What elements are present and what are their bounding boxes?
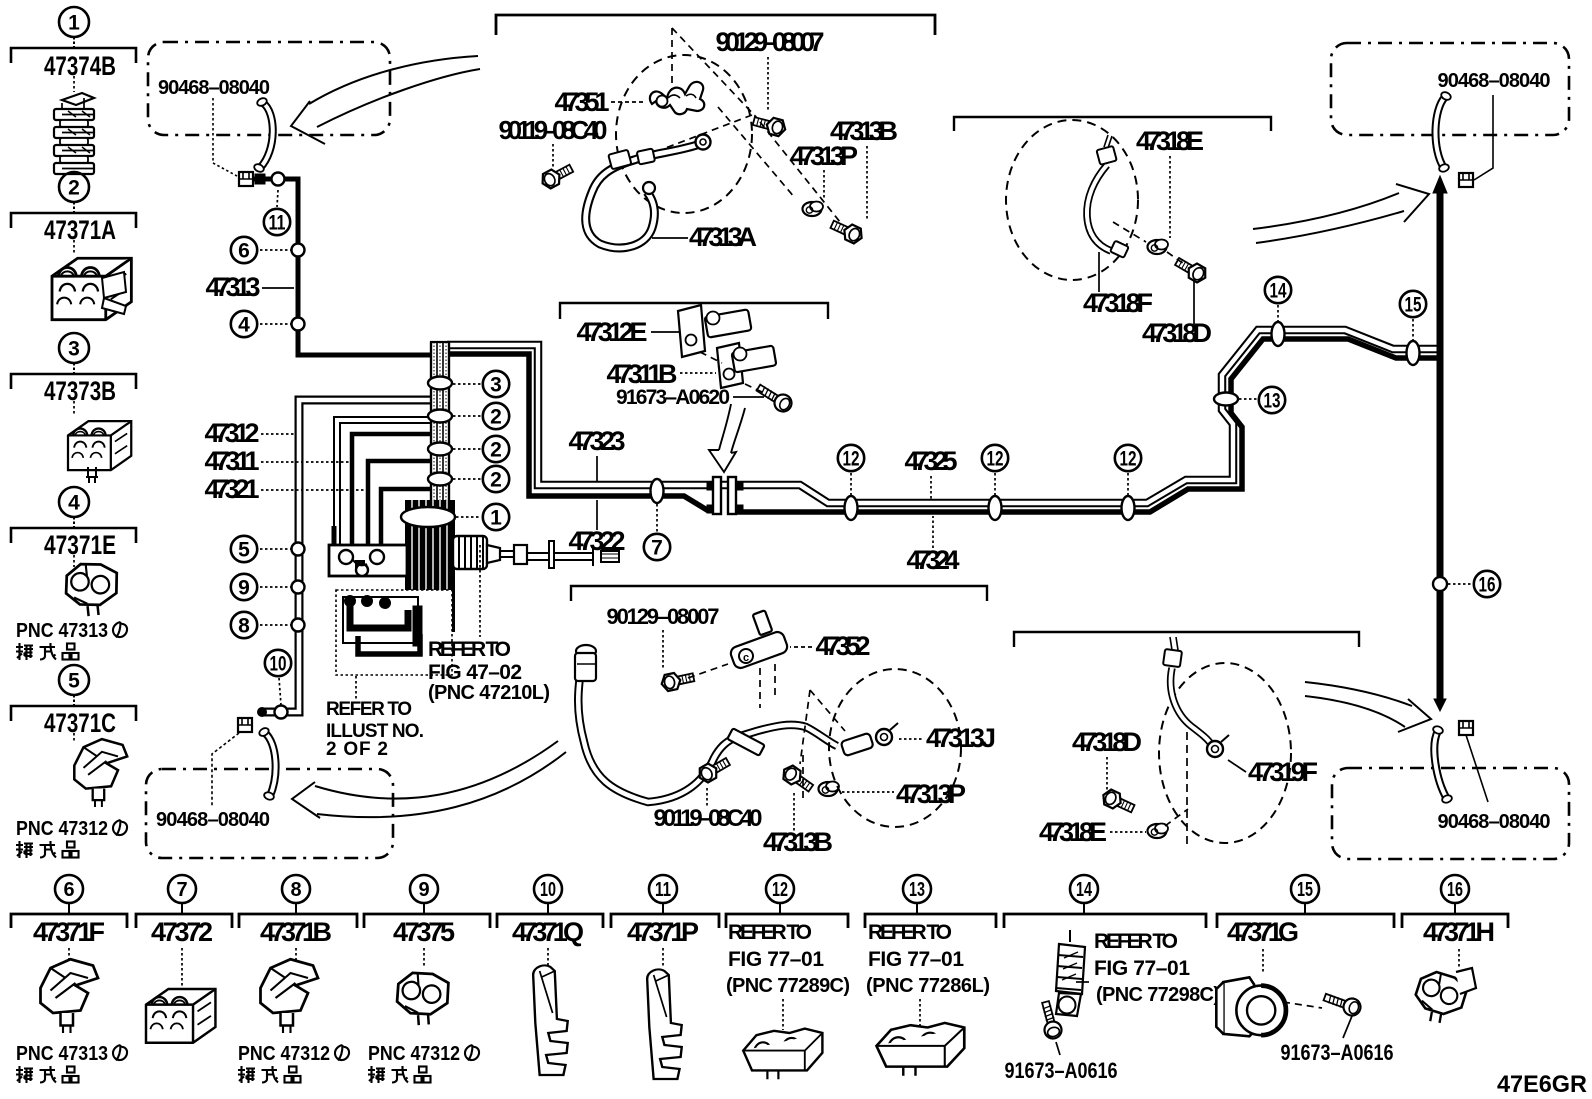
callout circle 15 — [1400, 291, 1426, 317]
refer text item 14 — [1094, 930, 1220, 1006]
svg-text:91673–A0616: 91673–A0616 — [1005, 1058, 1118, 1083]
wire leader callout 2a — [453, 415, 481, 417]
dashed pointer lines bottom-center — [800, 690, 845, 800]
svg-text:90468–08040: 90468–08040 — [156, 809, 270, 831]
dashed callout box bottom-left 90468-08040 — [146, 769, 393, 858]
bracket item 13 — [865, 914, 996, 928]
wire left tube 47312 component run — [257, 400, 433, 717]
dashed callout box bottom-right 90468-08040 — [1332, 768, 1569, 859]
svg-text:4: 4 — [68, 492, 80, 515]
callout circle 11 — [264, 209, 290, 235]
square clip connector top-right — [1459, 173, 1473, 187]
node clamp point 16 — [1433, 577, 1447, 591]
bracket 47311B — [717, 343, 776, 388]
clamp icon 47371B — [261, 959, 319, 1033]
svg-text:90119–08C40: 90119–08C40 — [499, 115, 608, 145]
svg-text:47321: 47321 — [205, 474, 260, 504]
wire brake tube 47313 (front-left run) — [252, 174, 433, 355]
node grommet 2a on bundle — [428, 410, 452, 423]
actuator lower bracket — [336, 590, 452, 675]
clamp icon 47371G grommet — [1216, 977, 1286, 1036]
callout circle 4 — [231, 311, 257, 337]
svg-text:FIG 77–01: FIG 77–01 — [1094, 957, 1190, 980]
bolt 47318D top — [1173, 254, 1209, 284]
tube bundle at actuator — [431, 342, 449, 502]
clamp icon 47371H — [1412, 968, 1476, 1027]
callout circle 14 — [1265, 277, 1291, 303]
node clamp point 9 — [292, 581, 305, 594]
bolt 47313B top — [829, 217, 865, 246]
svg-text:47375: 47375 — [393, 917, 455, 947]
item column 3 : callout 3 — [11, 333, 136, 415]
grommet tube piece top-left — [253, 97, 273, 174]
svg-text:FIG 77–01: FIG 77–01 — [728, 948, 824, 971]
frame bracket top-right sub-diagram — [954, 117, 1271, 131]
callout circle b11 — [649, 875, 677, 903]
svg-text:47313: 47313 — [206, 272, 261, 302]
node grommet 3 on bundle — [428, 377, 452, 390]
dashed pointer lines top-center — [608, 28, 757, 170]
dashed drop bottom-right — [1186, 732, 1188, 845]
svg-text:47318D: 47318D — [1072, 727, 1142, 757]
leader 47313 — [262, 287, 294, 289]
svg-text:47318D: 47318D — [1142, 318, 1212, 348]
leader 91673-A0620 — [733, 396, 764, 398]
leader 47324 — [932, 516, 934, 548]
leader 47318D top — [1193, 280, 1195, 324]
node clamp point 5 — [292, 543, 305, 556]
svg-text:1: 1 — [490, 507, 502, 530]
label PNC 47312 component 9 — [368, 1043, 479, 1083]
frame bracket bottom-center sub-diagram — [571, 586, 987, 601]
bracket item 15 — [1217, 914, 1394, 928]
svg-text:47323: 47323 — [569, 426, 626, 456]
item column 2 : callout 2 — [11, 172, 136, 255]
svg-text:5: 5 — [68, 670, 80, 693]
clamp icon 47374B — [54, 93, 94, 174]
svg-text:9: 9 — [238, 577, 250, 600]
leader 47313J — [899, 738, 924, 740]
clamp icon 47375 — [395, 970, 451, 1026]
svg-text:12: 12 — [772, 879, 788, 901]
leader 47351 — [611, 101, 645, 103]
svg-text:47371F: 47371F — [33, 917, 105, 947]
svg-text:47374B: 47374B — [44, 51, 116, 81]
bracket item 9 — [364, 914, 490, 928]
wire leader callout 11 — [277, 190, 278, 207]
bolt item 14 91673-A0616 — [1037, 1000, 1063, 1041]
clamp icon 47371P — [647, 969, 682, 1079]
node clamp point 6 — [292, 244, 305, 257]
svg-text:FIG 77–01: FIG 77–01 — [868, 948, 964, 971]
svg-text:47319F: 47319F — [1248, 757, 1318, 787]
clamp icon item 12 — [743, 1029, 822, 1080]
svg-text:47371C: 47371C — [44, 708, 116, 738]
svg-text:47371Q: 47371Q — [512, 917, 584, 947]
wire leader callout 12c — [1127, 473, 1129, 496]
svg-text:47371E: 47371E — [44, 530, 116, 560]
dashed inspection ellipse top-right — [1006, 120, 1138, 280]
arrow swoosh top-left — [291, 56, 480, 144]
label PNC 47312 component 8 — [238, 1043, 349, 1083]
svg-text:(PNC 47210L): (PNC 47210L) — [428, 682, 550, 704]
clamp icon 47371A — [52, 258, 131, 319]
leader 47312E — [651, 331, 680, 333]
bracket 47312E — [678, 305, 752, 357]
dashed link hose-nut-bolt top-right — [1113, 222, 1184, 264]
label refer to illust no 2 of 2 — [326, 699, 424, 760]
svg-text:90468–08040: 90468–08040 — [1438, 70, 1551, 92]
svg-text:47313P: 47313P — [790, 141, 858, 171]
leader 90119 bottom — [706, 788, 708, 808]
leader refer fig47-02 — [479, 545, 481, 637]
callout circle 12c — [1115, 445, 1141, 471]
svg-text:47E6GR: 47E6GR — [1497, 1071, 1587, 1098]
callout circle b8 — [282, 875, 310, 903]
dashed link nut bottom-right — [1165, 809, 1188, 826]
square clip connector bottom-right — [1459, 721, 1473, 735]
leader 47322 — [596, 500, 598, 530]
svg-text:47312: 47312 — [205, 418, 260, 448]
svg-text:47313B: 47313B — [763, 827, 833, 857]
nut 47318E bottom — [1148, 824, 1169, 839]
bolt 91673-A0620 — [754, 380, 795, 414]
callout circle 7 — [644, 534, 670, 560]
callout circle b10 — [534, 875, 562, 903]
node clamp point 15 — [1407, 341, 1420, 365]
svg-text:47371H: 47371H — [1423, 917, 1495, 947]
wire leader callout 1 — [456, 516, 481, 518]
callout circle b13 — [903, 875, 931, 903]
svg-text:REFER TO: REFER TO — [1094, 930, 1178, 953]
clamp icon 47371F — [41, 959, 99, 1033]
square clip connector bottom-left — [238, 718, 252, 732]
svg-text:15: 15 — [1405, 294, 1422, 317]
svg-text:47324: 47324 — [907, 545, 960, 575]
bolt 90129-08007 top — [752, 113, 788, 137]
wire main tube upper 47323 to rear — [447, 330, 1438, 503]
svg-text:47311B: 47311B — [607, 359, 678, 389]
callout circle 12a — [838, 445, 864, 471]
arrow swoosh bottom-right — [1305, 682, 1431, 732]
dashed inspection ellipse bottom-right — [1159, 663, 1291, 843]
refer text item 13 — [866, 921, 990, 997]
svg-text:12: 12 — [843, 448, 860, 471]
label PNC 47313 component 6 — [16, 1043, 127, 1083]
label PNC 47312 component 5 — [16, 818, 127, 858]
callout circle b14 — [1070, 875, 1098, 903]
leader 47313P bottom — [842, 791, 894, 793]
wire leader callout 15 — [1412, 319, 1414, 341]
bolt 47318D bottom — [1100, 788, 1136, 817]
clamp icon 47371E — [63, 560, 121, 618]
leader 47318D bottom — [1106, 757, 1108, 790]
leader 47318E top — [1169, 156, 1171, 238]
leader 47318F — [1098, 252, 1100, 292]
callout circle 5 — [231, 536, 257, 562]
nut 47318E top — [1148, 240, 1169, 255]
svg-text:47318E: 47318E — [1039, 817, 1107, 847]
node clamp point 7 — [651, 479, 664, 503]
dashed leaders to bolts top — [718, 107, 840, 222]
wire leader callout 12a — [850, 473, 852, 496]
arrow swoosh bottom-left — [292, 741, 566, 818]
grommet tube piece bottom-right — [1432, 725, 1453, 804]
item column 4 : callout 4 — [11, 487, 136, 567]
bracket item 14 — [1004, 914, 1206, 928]
leader 90468 bottom-right — [1466, 735, 1488, 802]
bracket item 12 — [726, 914, 848, 928]
callout circle b6 — [55, 875, 83, 903]
wire leader callout 7 — [656, 504, 658, 532]
wire leader callout 2b — [453, 448, 481, 450]
svg-text:14: 14 — [1270, 280, 1287, 303]
svg-text:47325: 47325 — [905, 446, 958, 476]
callout circle 3 — [483, 371, 509, 397]
svg-text:6: 6 — [63, 879, 74, 901]
brake booster accordion — [453, 536, 619, 569]
svg-text:c: c — [743, 652, 749, 664]
label PNC 47313 component 4 — [16, 620, 127, 660]
callout circle b7 — [168, 875, 196, 903]
grommet tube piece top-right — [1435, 91, 1452, 173]
node grommet 2c on bundle — [428, 473, 452, 486]
svg-text:REFER TO: REFER TO — [868, 921, 952, 944]
bolt 90119-08C40 top — [539, 161, 575, 191]
svg-text:(PNC 77286L): (PNC 77286L) — [866, 975, 990, 997]
callout circle b9 — [410, 875, 438, 903]
wire rear trunk tube — [1433, 176, 1447, 711]
node clamp point 10 — [275, 706, 288, 719]
nut 47313P top — [803, 202, 824, 217]
svg-text:13: 13 — [909, 879, 925, 901]
svg-text:47373B: 47373B — [44, 376, 116, 406]
item column 1 : callout 1 — [11, 7, 136, 92]
svg-text:(PNC 77289C): (PNC 77289C) — [726, 975, 850, 997]
svg-text:90468–08040: 90468–08040 — [158, 77, 270, 99]
svg-text:PNC 47312: PNC 47312 — [16, 818, 108, 840]
leader 47318E bottom — [1110, 831, 1146, 833]
svg-text:7: 7 — [176, 879, 187, 901]
svg-text:47371A: 47371A — [44, 215, 116, 245]
leader 47313B top — [866, 146, 868, 220]
dashed callout box top-right 90468-08040 — [1331, 43, 1569, 135]
wire tube 47312 inner — [337, 420, 433, 545]
svg-text:PNC 47313: PNC 47313 — [16, 620, 108, 642]
frame bracket bottom-right sub-diagram — [1014, 632, 1359, 647]
svg-text:11: 11 — [655, 879, 671, 901]
bracket item 10 — [497, 914, 603, 928]
leader refer illust — [355, 676, 357, 700]
wire leader callout 9 — [260, 586, 291, 588]
svg-text:5: 5 — [238, 539, 250, 562]
node clamp point 12c — [1122, 496, 1135, 520]
callout circle 8 — [231, 612, 257, 638]
dashed inspection ellipse bottom-center — [829, 669, 961, 827]
wire leader callout 13 — [1239, 398, 1257, 400]
wire tube inner 4th — [381, 489, 433, 545]
svg-text:2: 2 — [68, 177, 80, 200]
svg-text:47318E: 47318E — [1136, 126, 1204, 156]
leader 47313B bottom — [793, 793, 795, 831]
svg-text:REFER TO: REFER TO — [326, 699, 412, 720]
svg-text:6: 6 — [238, 240, 250, 263]
callout circle 10 — [265, 650, 291, 676]
svg-text:PNC 47313: PNC 47313 — [16, 1043, 108, 1065]
leader 47311B — [680, 372, 716, 374]
arrow swoosh top-right — [1253, 184, 1429, 243]
svg-text:7: 7 — [651, 537, 663, 560]
dashed links 47312E chain — [700, 352, 762, 392]
svg-text:10: 10 — [270, 653, 287, 676]
svg-text:12: 12 — [1120, 448, 1137, 471]
node clamp point 13 — [1214, 393, 1238, 406]
svg-text:47312E: 47312E — [577, 317, 648, 347]
wire leader callout 12b — [994, 473, 996, 496]
bolt 90129-08007 bottom — [660, 669, 695, 692]
callout circle 2a — [483, 403, 509, 429]
callout circle 16 — [1474, 571, 1500, 597]
clamp 47351 — [650, 82, 704, 114]
wire leader callout 4 — [260, 323, 291, 325]
dashed inspection ellipse top-center — [616, 55, 752, 213]
svg-text:14: 14 — [1076, 879, 1093, 901]
leader 47313P top — [823, 170, 825, 200]
dashed drop from 47352 — [760, 664, 775, 708]
leader 47321 — [261, 489, 365, 491]
svg-text:47318F: 47318F — [1083, 288, 1153, 318]
leader 47313A — [652, 237, 688, 239]
svg-text:8: 8 — [290, 879, 301, 901]
leader 47323 — [596, 456, 598, 481]
svg-text:47313P: 47313P — [896, 779, 966, 809]
clamp icon 47371Q — [533, 965, 568, 1075]
refer text item 12 — [726, 921, 850, 997]
leader 90468 bottom-left — [212, 733, 239, 806]
svg-text:15: 15 — [1297, 879, 1313, 901]
svg-text:47322: 47322 — [569, 526, 626, 556]
svg-text:2: 2 — [490, 406, 502, 429]
actuator manifold block — [329, 526, 407, 576]
brake hose lower center — [575, 645, 837, 802]
node grommet 2b on bundle — [428, 443, 452, 456]
screw item 15 — [1322, 989, 1363, 1018]
wire leader callout 10 — [279, 678, 281, 705]
leader 47311 — [261, 461, 349, 463]
dashed callout box top-left 90468-08040 — [148, 42, 390, 135]
wire leader callout 14 — [1277, 305, 1279, 322]
svg-text:PNC 47312: PNC 47312 — [368, 1043, 460, 1065]
wire leader callout 3 — [453, 383, 481, 385]
fitting 47313J — [841, 723, 898, 756]
node grommet 1 big on bundle — [401, 507, 455, 527]
svg-text:4: 4 — [238, 314, 250, 337]
frame bracket 47312E sub-diagram — [560, 303, 828, 319]
bolt 90119-08C40 bottom — [696, 754, 732, 784]
svg-text:47372: 47372 — [151, 917, 213, 947]
svg-text:(PNC 77298C): (PNC 77298C) — [1096, 984, 1220, 1006]
svg-text:91673–A0620: 91673–A0620 — [616, 386, 730, 409]
wire tube 47321 inner — [368, 461, 433, 545]
svg-text:10: 10 — [540, 879, 556, 901]
wire leader callout 6 — [260, 249, 291, 251]
svg-text:2: 2 — [490, 469, 502, 492]
callout circle b16 — [1441, 875, 1469, 903]
bracket item 16 — [1402, 914, 1508, 928]
wire leader callout 16 — [1448, 583, 1472, 585]
callout circle 13 — [1259, 387, 1285, 413]
svg-text:9: 9 — [418, 879, 429, 901]
nut 47313P bottom — [819, 782, 840, 797]
callout circle 2c — [483, 466, 509, 492]
leader 90468 top-left — [213, 98, 237, 176]
wire leader callout 5 — [260, 548, 291, 550]
frame bracket top-center sub-diagram — [496, 15, 935, 35]
brake actuator dark band — [405, 500, 455, 632]
leader 47319F — [1228, 760, 1246, 772]
svg-text:47313A: 47313A — [689, 222, 757, 252]
svg-text:90129–08007: 90129–08007 — [716, 27, 825, 57]
svg-text:47371B: 47371B — [260, 917, 332, 947]
callout circle 1 — [483, 504, 509, 530]
clutch damper 47352 — [729, 610, 789, 670]
bolt 47313B bottom — [780, 763, 816, 795]
bracket item 8 — [239, 914, 357, 928]
node clamp point 11 — [272, 173, 285, 186]
svg-text:16: 16 — [1479, 574, 1496, 597]
label refer to fig 47-02 — [428, 638, 550, 704]
leader 90129 top — [767, 57, 769, 112]
callout circle 9 — [231, 574, 257, 600]
leader 90129 bottom — [662, 630, 664, 668]
bracket item 11 — [611, 914, 719, 928]
svg-text:3: 3 — [68, 338, 80, 361]
node clamp point 14 — [1272, 322, 1285, 346]
svg-text:11: 11 — [269, 212, 286, 235]
svg-text:REFER TO: REFER TO — [728, 921, 812, 944]
junction connector on main tubes — [707, 477, 743, 514]
leader 90468 top-right — [1474, 95, 1493, 180]
svg-text:47351: 47351 — [555, 87, 610, 117]
brake hose 47313A — [586, 135, 711, 248]
node clamp point 4 — [292, 318, 305, 331]
wire leader callout 2c — [453, 478, 481, 480]
square clip connector top-left — [239, 172, 253, 186]
svg-text:47371P: 47371P — [627, 917, 699, 947]
callout circle b12 — [766, 875, 794, 903]
node clamp point 8 — [292, 619, 305, 632]
leader 47325 — [930, 476, 932, 500]
svg-text:PNC 47312: PNC 47312 — [238, 1043, 330, 1065]
svg-text:47311: 47311 — [205, 446, 260, 476]
node clamp point 12b — [989, 496, 1002, 520]
item column 5 : callout 5 — [11, 665, 136, 742]
svg-text:47371G: 47371G — [1227, 917, 1299, 947]
svg-text:16: 16 — [1447, 879, 1463, 901]
leader 47312 — [261, 433, 294, 435]
node clamp point 12a — [845, 496, 858, 520]
svg-text:2 OF 2: 2 OF 2 — [326, 739, 388, 760]
callout circle 12b — [982, 445, 1008, 471]
wire leader callout 8 — [260, 624, 291, 626]
callout circle 2b — [483, 436, 509, 462]
brake hose 47318F — [1087, 135, 1129, 258]
svg-text:1: 1 — [68, 12, 80, 35]
clamp icon 47373B — [68, 421, 131, 483]
brake hose 47319F — [1163, 637, 1229, 757]
svg-text:90129–08007: 90129–08007 — [607, 604, 720, 629]
clamp icon item 14 ladder bracket — [1056, 930, 1089, 1016]
